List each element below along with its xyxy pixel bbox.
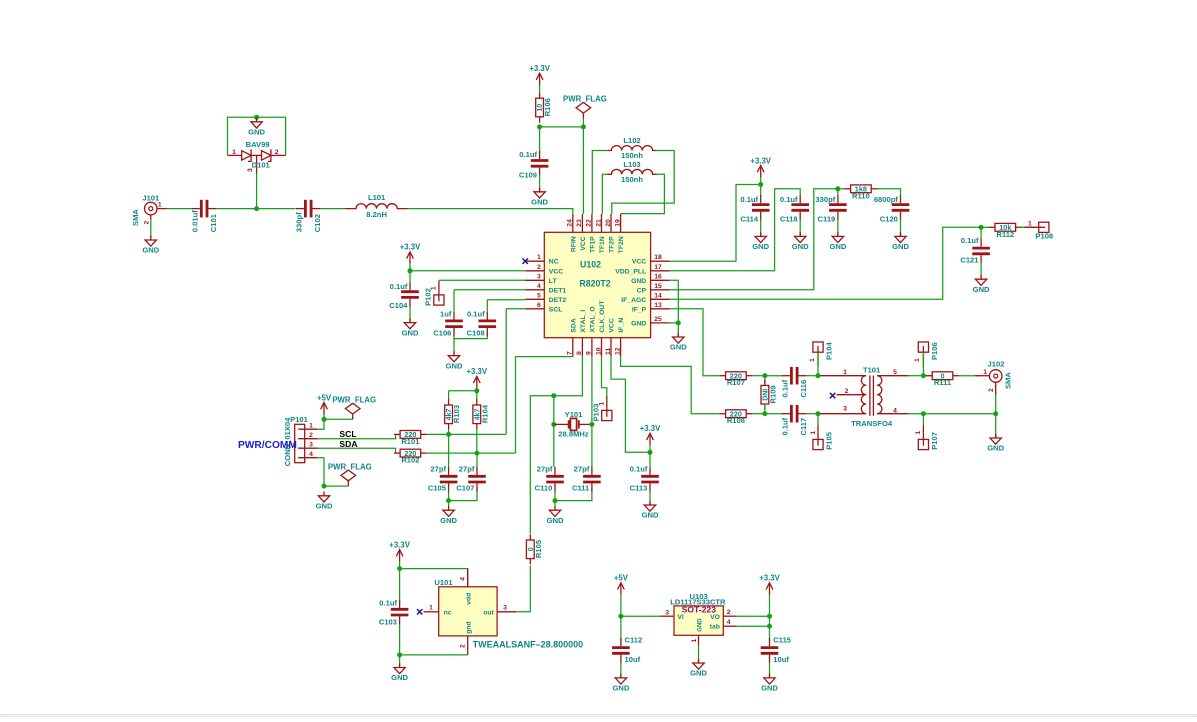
svg-text:1: 1	[843, 369, 847, 376]
wire pin13 IF_P	[670, 309, 720, 376]
capacitor C103	[379, 599, 409, 627]
svg-text:GND: GND	[531, 198, 548, 207]
svg-text:21: 21	[595, 219, 602, 227]
resistor R101	[394, 430, 427, 446]
svg-text:4: 4	[893, 408, 897, 415]
wire P107 stem	[922, 414, 924, 426]
wire DET1 to C106	[453, 290, 455, 311]
connector P107	[915, 425, 939, 450]
svg-text:0.1uf: 0.1uf	[467, 310, 485, 319]
wire C121 gnd	[980, 263, 982, 280]
ground C105	[440, 506, 457, 525]
svg-text:R106: R106	[543, 98, 552, 116]
ground C114	[752, 232, 769, 251]
connector J101	[131, 194, 167, 227]
junction pin2 VCC	[408, 268, 413, 273]
svg-text:+3.3V: +3.3V	[640, 424, 661, 433]
resistor R104	[473, 399, 490, 429]
ground P101	[316, 492, 333, 511]
wire C104 gnd	[409, 307, 411, 324]
svg-text:IF_AGC: IF_AGC	[621, 297, 646, 304]
wire to C105	[448, 434, 450, 466]
wire T101 pin5	[909, 375, 924, 377]
wire pin18 VCC	[670, 185, 761, 262]
PWR_FLAG GND	[328, 462, 372, 486]
wire R103 bottom	[448, 429, 450, 435]
svg-text:C120: C120	[880, 214, 898, 223]
wire out to R105	[516, 566, 530, 612]
svg-text:gnd: gnd	[465, 621, 472, 633]
capacitor C117	[780, 405, 808, 436]
wire junction to R110	[838, 188, 846, 190]
svg-text:GND: GND	[631, 320, 646, 327]
svg-text:3: 3	[537, 273, 541, 280]
svg-text:C106: C106	[433, 329, 451, 338]
svg-text:17: 17	[654, 264, 662, 271]
wire to PWR_FLAG	[540, 126, 584, 128]
PWR_FLAG +5V	[332, 396, 376, 420]
svg-text:19: 19	[614, 219, 621, 227]
svg-text:T101: T101	[863, 366, 881, 375]
junction tab	[767, 624, 772, 629]
ground C120	[892, 232, 909, 251]
svg-text:P105: P105	[824, 431, 833, 450]
svg-text:R101: R101	[401, 437, 420, 446]
wire DET2 to C108	[486, 300, 488, 311]
wire to U103 VI	[621, 615, 660, 617]
power +3.3V pullups	[467, 367, 488, 391]
svg-text:2: 2	[143, 221, 150, 225]
wire +5V col	[620, 596, 622, 641]
svg-text:out: out	[483, 610, 494, 617]
svg-text:C107: C107	[456, 483, 474, 492]
wire PWR_FLAG stem	[582, 118, 584, 127]
svg-text:+3.3V: +3.3V	[389, 540, 410, 549]
ground C110	[547, 506, 564, 525]
capacitor C111	[572, 464, 601, 492]
crystal Y101	[554, 410, 592, 438]
resistor R106	[536, 92, 553, 122]
svg-text:1: 1	[983, 369, 987, 376]
junction C105 gnd	[446, 498, 451, 503]
svg-text:23: 23	[576, 219, 583, 227]
svg-text:GND: GND	[316, 502, 333, 511]
svg-text:TF2N: TF2N	[618, 236, 625, 253]
svg-text:SOT-223: SOT-223	[682, 604, 717, 614]
wire P104 stem	[817, 352, 819, 376]
wire to J102 gnd	[995, 414, 997, 439]
svg-text:1: 1	[809, 358, 816, 362]
svg-text:R112: R112	[996, 230, 1014, 239]
junction C112 top	[618, 614, 623, 619]
svg-text:L102: L102	[623, 136, 640, 145]
svg-text:SCL: SCL	[339, 429, 356, 439]
wire C119 gnd	[837, 220, 839, 238]
svg-text:P102: P102	[424, 288, 433, 306]
svg-text:C110: C110	[535, 483, 553, 492]
svg-text:10: 10	[595, 347, 602, 355]
svg-text:0.1uf: 0.1uf	[519, 150, 537, 159]
svg-text:C117: C117	[799, 418, 808, 436]
svg-text:2: 2	[727, 609, 731, 616]
wire pin2 VCC	[410, 270, 525, 272]
svg-text:0.1uf: 0.1uf	[780, 417, 789, 435]
wire C113 stem	[649, 452, 651, 466]
svg-text:SDA: SDA	[339, 439, 357, 449]
svg-text:4: 4	[309, 451, 313, 458]
capacitor C121	[960, 236, 990, 264]
svg-text:+5V: +5V	[317, 393, 332, 402]
svg-text:1: 1	[810, 431, 817, 435]
wire R112 to P108	[1018, 226, 1034, 228]
capacitor C104	[389, 282, 419, 310]
svg-text:27pf: 27pf	[459, 464, 475, 473]
svg-text:GND: GND	[761, 684, 778, 693]
svg-text:+3.3V: +3.3V	[400, 243, 421, 252]
ground C106	[446, 351, 463, 370]
svg-text:2: 2	[988, 388, 995, 392]
wire Y101 to C110	[553, 424, 555, 466]
svg-text:SDA: SDA	[570, 318, 577, 332]
svg-text:1: 1	[537, 254, 541, 261]
wire pin4 DET1	[454, 289, 525, 291]
svg-text:16: 16	[654, 273, 662, 280]
wire L102 to TF2P	[612, 151, 674, 214]
wire pin16 GND	[670, 280, 679, 323]
svg-text:1: 1	[1028, 220, 1032, 227]
svg-text:P107: P107	[930, 432, 939, 450]
power +5V U103	[614, 574, 629, 597]
svg-text:TRANSFO4: TRANSFO4	[851, 419, 893, 428]
svg-text:PWR_FLAG: PWR_FLAG	[563, 95, 607, 104]
svg-text:27pf: 27pf	[574, 464, 590, 473]
svg-text:XTAL_O: XTAL_O	[590, 306, 597, 332]
svg-text:NC: NC	[549, 259, 559, 266]
svg-text:R104: R104	[480, 404, 489, 423]
svg-text:4: 4	[727, 619, 731, 626]
svg-text:C105: C105	[428, 483, 447, 492]
capacitor C109	[519, 150, 549, 180]
resistor R108	[719, 409, 752, 425]
svg-text:1uf: 1uf	[440, 310, 452, 319]
svg-text:CLK_OUT: CLK_OUT	[599, 300, 606, 333]
svg-text:6800pf: 6800pf	[874, 195, 899, 204]
wire P101 pin1	[318, 419, 324, 429]
power +3.3V C114	[750, 156, 771, 184]
wire D101 stem	[256, 174, 258, 209]
svg-text:VCC: VCC	[632, 259, 646, 266]
PWR_FLAG top	[563, 95, 607, 119]
ground C109	[531, 188, 548, 207]
junction J102 gnd	[993, 411, 998, 416]
junction RF node	[254, 206, 259, 211]
svg-text:0.1uf: 0.1uf	[379, 599, 397, 608]
svg-text:25: 25	[654, 316, 662, 323]
junction T101 pin1	[816, 373, 821, 378]
no-connect T101 pin2	[830, 393, 835, 398]
svg-text:1: 1	[232, 149, 236, 156]
svg-text:11: 11	[605, 348, 612, 355]
capacitor C114	[740, 195, 769, 224]
wire R104 bottom	[476, 429, 478, 454]
wire R108 out	[752, 413, 765, 415]
diode D101 BAV99	[228, 140, 286, 174]
svg-text:GND: GND	[402, 328, 419, 337]
capacitor C112	[612, 636, 642, 665]
junction R109 bottom	[762, 411, 767, 416]
wire R111 to J102	[959, 375, 981, 377]
wire R109 top lead	[764, 376, 766, 386]
svg-text:GND: GND	[391, 673, 408, 682]
wire L103 to TF1N	[602, 174, 607, 214]
wire C103 bottom	[399, 624, 401, 668]
svg-text:LT: LT	[549, 278, 558, 285]
svg-text:6: 6	[537, 302, 541, 309]
svg-text:28.8MHz: 28.8MHz	[558, 430, 589, 439]
wire U103 gnd	[698, 645, 700, 663]
junction C110 gnd	[553, 498, 558, 503]
svg-text:24: 24	[567, 219, 574, 227]
ground U102	[670, 333, 687, 352]
power +3.3V C113	[640, 424, 661, 452]
svg-text:L103: L103	[623, 160, 640, 169]
svg-text:GND: GND	[752, 242, 769, 251]
wire C120 gnd	[900, 220, 902, 238]
svg-text:C114: C114	[740, 214, 759, 223]
junction T101 pin3	[816, 411, 821, 416]
svg-text:2: 2	[460, 644, 467, 648]
wire C109 to ground	[539, 176, 541, 193]
svg-text:27pf: 27pf	[430, 464, 446, 473]
wire C110 bottom	[554, 491, 556, 500]
wire P101 pin2 SCL	[318, 434, 396, 438]
wire C113 gnd	[649, 491, 651, 506]
wire P101 pin4	[318, 458, 324, 486]
junction C103 gnd	[397, 652, 402, 657]
svg-text:C108: C108	[467, 329, 485, 338]
wire	[167, 208, 193, 210]
junction Y101 left	[551, 422, 556, 427]
svg-text:+3.3V: +3.3V	[467, 367, 488, 376]
resistor R110	[844, 185, 877, 201]
junction P101 gnd	[322, 484, 327, 489]
svg-text:R102: R102	[401, 456, 419, 465]
wire to C117	[765, 413, 783, 415]
svg-text:R820T2: R820T2	[579, 279, 610, 289]
svg-text:3: 3	[503, 605, 507, 612]
label PWR/COMM	[238, 440, 297, 451]
svg-text:GND: GND	[829, 242, 846, 251]
svg-text:3: 3	[309, 441, 313, 448]
wire pullup rail	[449, 390, 477, 392]
wire to R111	[923, 375, 932, 377]
svg-text:2: 2	[309, 432, 313, 439]
svg-text:0.1uf: 0.1uf	[961, 236, 979, 245]
svg-text:0.01uf: 0.01uf	[190, 210, 199, 232]
wire C108 bottom	[454, 332, 487, 338]
svg-text:C101: C101	[209, 213, 218, 232]
svg-text:TF1N: TF1N	[599, 236, 606, 253]
wire R106 to C109	[539, 127, 541, 151]
svg-text:20: 20	[605, 219, 612, 227]
connector J102	[975, 360, 1012, 396]
wire J102 pin2	[995, 395, 997, 413]
svg-text:1: 1	[914, 358, 921, 362]
svg-text:TF2P: TF2P	[609, 236, 616, 253]
wire	[257, 208, 296, 210]
svg-text:C102: C102	[313, 214, 322, 232]
wire pin6 SCL stub	[506, 308, 525, 310]
svg-text:2: 2	[537, 264, 541, 271]
transformer T101	[821, 366, 909, 428]
svg-text:CP: CP	[637, 287, 647, 294]
svg-text:R107: R107	[727, 378, 745, 387]
svg-text:0.1uf: 0.1uf	[630, 464, 648, 473]
svg-text:P106: P106	[930, 342, 939, 360]
svg-text:C111: C111	[572, 483, 590, 492]
capacitor C102	[294, 200, 322, 232]
wire pin12 IF_N	[621, 357, 720, 414]
svg-text:J102: J102	[988, 360, 1005, 369]
svg-text:GND: GND	[142, 246, 159, 255]
svg-text:14: 14	[654, 292, 662, 299]
svg-text:15: 15	[654, 283, 662, 290]
wire C115 gnd	[769, 663, 771, 679]
svg-text:GND: GND	[547, 516, 564, 525]
junction PWR_FLAG	[581, 124, 586, 129]
wire C121 stem	[980, 227, 982, 239]
wire SCL column	[505, 309, 507, 435]
svg-text:GND: GND	[642, 511, 659, 520]
svg-text:PWR_FLAG: PWR_FLAG	[332, 396, 376, 405]
wire C114 gnd	[760, 220, 762, 238]
wire C106 gnd	[453, 336, 455, 357]
junction C113 top	[648, 450, 653, 455]
wire L102 to TF1P	[592, 151, 607, 214]
junction VO	[767, 614, 772, 619]
svg-text:SMA: SMA	[1003, 372, 1012, 389]
junction C119 top	[835, 186, 840, 191]
svg-text:D101: D101	[252, 160, 271, 169]
frame	[0, 715, 1197, 717]
wire pin17 VDD_PLL	[670, 189, 801, 271]
svg-text:GND: GND	[631, 278, 646, 285]
wire pin15 CP	[670, 189, 838, 290]
resistor R103	[445, 399, 462, 429]
svg-text:L101: L101	[368, 193, 386, 202]
svg-text:VCC: VCC	[609, 318, 616, 332]
connector P101	[283, 415, 318, 466]
ground J102	[987, 434, 1004, 453]
capacitor C120	[874, 195, 909, 224]
svg-text:U101: U101	[434, 578, 453, 587]
svg-text:C112: C112	[625, 636, 643, 645]
svg-text:GND: GND	[697, 618, 703, 632]
junction XTAL node	[551, 393, 556, 398]
wire VCC pin23	[582, 127, 584, 214]
ground J101	[142, 236, 159, 255]
capacitor C101	[190, 200, 218, 232]
regulator U103	[660, 592, 737, 645]
wire SDA row	[477, 452, 516, 454]
wire pin7 SDA stub	[516, 356, 573, 358]
wire to ground	[554, 501, 556, 508]
ground C115	[761, 674, 778, 693]
wire	[407, 209, 573, 214]
inductor L101	[345, 193, 408, 219]
svg-text:C103: C103	[379, 618, 397, 627]
wire C105 bottom	[448, 491, 450, 500]
svg-text:Y101: Y101	[565, 410, 584, 419]
svg-text:27pf: 27pf	[537, 464, 553, 473]
svg-text:+3.3V: +3.3V	[529, 64, 550, 73]
svg-text:VI: VI	[677, 614, 684, 621]
junction +5V	[322, 417, 327, 422]
svg-text:GND: GND	[248, 128, 265, 137]
junction U101 vdd	[397, 566, 402, 571]
ground D101	[248, 118, 265, 137]
wire R103 top	[448, 391, 450, 400]
power +3.3V C104	[400, 243, 421, 271]
svg-text:22: 22	[586, 219, 593, 227]
svg-text:5: 5	[893, 369, 897, 376]
wire +3.3V col U101	[399, 566, 401, 605]
junction SCL R103	[446, 432, 451, 437]
svg-text:10uf: 10uf	[773, 655, 789, 664]
svg-text:VCC: VCC	[580, 236, 587, 250]
svg-text:4: 4	[537, 283, 541, 290]
resistor R109	[761, 380, 778, 410]
capacitor C119	[815, 195, 846, 224]
svg-text:SCL: SCL	[549, 306, 563, 313]
svg-text:SMA: SMA	[131, 209, 140, 226]
wire to PWR_FLAG 5V	[324, 418, 353, 420]
svg-text:R111: R111	[934, 378, 952, 387]
wire pin3 LT	[439, 279, 526, 281]
junction P106	[921, 373, 926, 378]
oscillator U101	[424, 569, 584, 655]
power +3.3V U103	[759, 574, 780, 597]
wire SDA column	[515, 357, 517, 454]
svg-text:3: 3	[843, 406, 847, 413]
svg-text:vdd: vdd	[465, 593, 472, 605]
svg-text:1: 1	[429, 605, 433, 612]
svg-text:R103: R103	[452, 405, 461, 423]
svg-text:TF1P: TF1P	[590, 236, 597, 253]
ground U103	[690, 659, 707, 678]
wire pin8 XTAL_I	[554, 357, 583, 396]
wire to U101 vdd	[400, 569, 468, 587]
wire U101 gnd	[400, 654, 468, 656]
wire VO	[737, 615, 770, 617]
wire +3.3V to C104	[409, 266, 411, 283]
wire	[321, 208, 345, 210]
svg-text:2: 2	[275, 149, 279, 156]
svg-text:R108: R108	[727, 416, 745, 425]
wire to ground	[448, 501, 450, 508]
wire R102 to junction	[427, 452, 477, 454]
ground C104	[402, 318, 419, 337]
svg-text:7: 7	[567, 351, 574, 355]
svg-text:P103: P103	[591, 404, 600, 422]
svg-text:GND: GND	[792, 242, 809, 251]
svg-text:+5V: +5V	[614, 574, 629, 583]
junction D101 top	[254, 115, 259, 120]
connector P105	[810, 425, 834, 450]
svg-text:DET2: DET2	[549, 297, 567, 304]
svg-text:8: 8	[576, 351, 583, 355]
svg-text:IF_P: IF_P	[632, 306, 647, 313]
